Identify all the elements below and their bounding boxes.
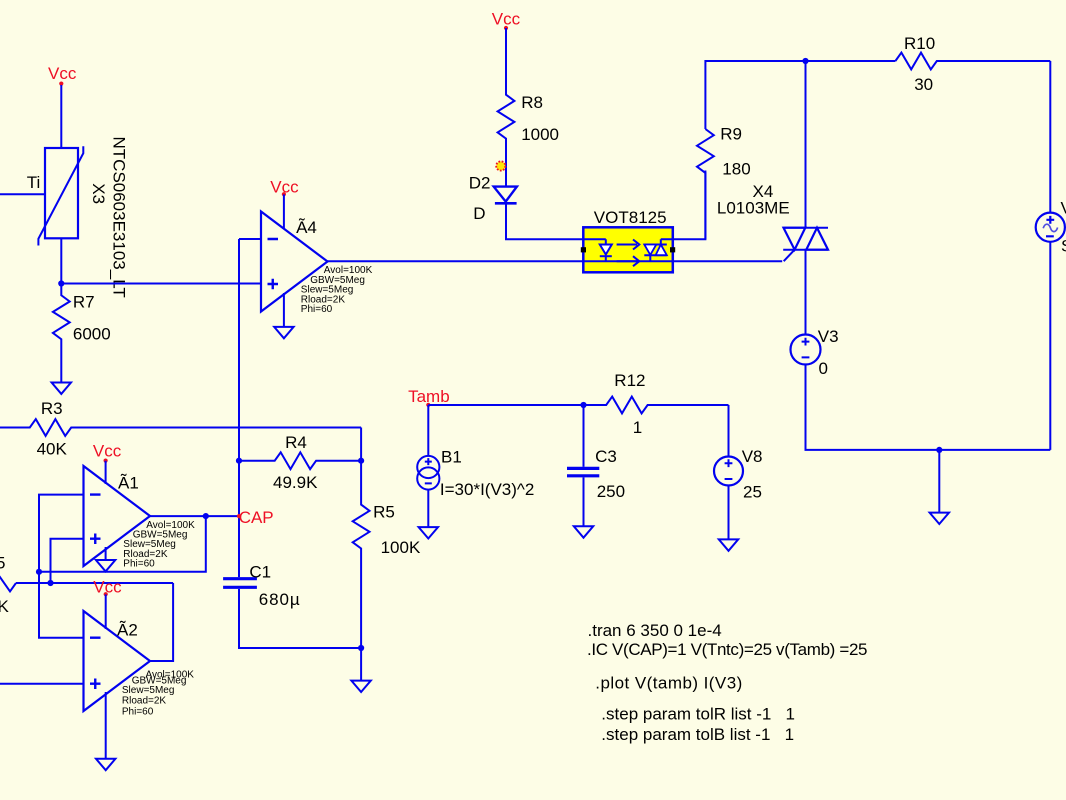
svg-text:Ti: Ti: [27, 173, 41, 192]
wire: [805, 61, 807, 227]
svg-text:B1: B1: [441, 447, 462, 466]
capacitor C3: [567, 405, 625, 501]
diode D2: [469, 173, 517, 223]
wire: [61, 283, 261, 285]
resistor R5: [353, 461, 421, 648]
svg-text:.plot V(tamb) I(V3): .plot V(tamb) I(V3): [595, 674, 742, 693]
svg-text:.IC V(CAP)=1 V(Tntc)=25 v(Tamb: .IC V(CAP)=1 V(Tntc)=25 v(Tamb) =25: [587, 640, 867, 659]
ground: [52, 383, 71, 394]
node Tamb: [408, 387, 450, 407]
resistor R4: [239, 433, 361, 492]
svg-text:Ã2: Ã2: [117, 620, 138, 639]
resistor R7: [53, 284, 111, 383]
node junction: [358, 458, 364, 464]
svg-text:180: 180: [722, 160, 750, 179]
svg-text:V3: V3: [818, 327, 839, 346]
op-amp A2: [84, 611, 151, 711]
svg-text:.step param tolB list -1 1: .step param tolB list -1 1: [601, 725, 794, 744]
wire: [805, 249, 807, 335]
node junction: [802, 58, 808, 64]
wire: [705, 61, 895, 129]
node junction: [236, 458, 242, 464]
resistor R3: [0, 399, 361, 458]
svg-text:Vcc: Vcc: [492, 10, 521, 29]
node junction: [936, 447, 942, 453]
ground: [274, 327, 293, 338]
wire: [661, 171, 706, 240]
voltage source V3: [791, 327, 839, 378]
voltage source V8: [714, 447, 762, 502]
svg-text:L0103ME: L0103ME: [717, 199, 790, 218]
svg-text:R12: R12: [614, 371, 645, 390]
svg-text:R4: R4: [285, 433, 307, 452]
svg-text:C1: C1: [249, 563, 271, 582]
wire: [583, 477, 585, 526]
opto triac: [644, 239, 667, 261]
svg-text:R8: R8: [521, 93, 543, 112]
node Vcc (R8): [492, 10, 521, 31]
ground: [574, 526, 593, 537]
svg-text:K: K: [0, 597, 10, 616]
spice directive .step: [601, 705, 795, 745]
svg-text:D2: D2: [469, 173, 491, 192]
optocoupler U1 VOT8125 package body: [583, 227, 673, 272]
wire A2 -input: [39, 572, 84, 638]
wire A2 +input: [0, 683, 84, 685]
wire vertical CAP net: [238, 239, 240, 577]
wire gate: [784, 250, 795, 262]
wire: [427, 490, 429, 527]
wire A1 +input: [51, 539, 84, 583]
svg-text:250: 250: [597, 482, 625, 501]
wire: [60, 238, 62, 283]
wire: [105, 692, 107, 759]
svg-text:Phi=60: Phi=60: [122, 706, 154, 717]
svg-text:Slew=5Meg: Slew=5Meg: [122, 685, 175, 696]
svg-text:D: D: [473, 204, 485, 223]
svg-text:Ã1: Ã1: [118, 474, 139, 493]
opto LED: [600, 239, 612, 261]
svg-text:C3: C3: [595, 447, 617, 466]
svg-text:.tran 6 350 0 1e-4: .tran 6 350 0 1e-4: [588, 621, 722, 640]
svg-text:25: 25: [743, 482, 762, 501]
svg-text:NTCS0603E3103_LT: NTCS0603E3103_LT: [110, 137, 129, 298]
wire: [60, 85, 62, 148]
wire A1 feedback: [39, 495, 206, 572]
wire: [806, 365, 1051, 450]
wire: [105, 461, 107, 484]
A2 parameters: [122, 670, 194, 718]
node junction: [47, 580, 53, 586]
op-amp A1: [84, 466, 151, 566]
svg-text:VOT8125: VOT8125: [594, 208, 667, 227]
svg-text:Ã4: Ã4: [296, 218, 317, 237]
svg-text:30: 30: [914, 75, 933, 94]
svg-text:6000: 6000: [73, 324, 111, 343]
node junction: [580, 402, 586, 408]
wire: [105, 547, 107, 560]
wire: [506, 203, 606, 239]
resistor R12: [584, 371, 729, 437]
svg-text:0: 0: [819, 359, 828, 378]
op-amp A4: [261, 212, 328, 312]
node Vcc (top-left label): [48, 64, 77, 86]
svg-text:.step param tolR list -1 1: .step param tolR list -1 1: [601, 705, 795, 724]
triac X4: [717, 182, 828, 250]
wire A2 feedback: [150, 583, 173, 661]
voltage source V6 (right edge, AC): [1036, 199, 1066, 256]
svg-text:X3: X3: [89, 183, 108, 204]
wire: [283, 293, 285, 327]
svg-text:V8: V8: [742, 447, 763, 466]
wire: [728, 405, 730, 457]
ground: [96, 759, 115, 770]
wire: [1049, 242, 1051, 450]
resistor R8: [498, 28, 559, 187]
svg-text:680µ: 680µ: [259, 590, 301, 609]
wire: [1049, 61, 1051, 213]
svg-text:V6: V6: [1061, 199, 1066, 218]
node junction: [36, 569, 42, 575]
resistor R10: [895, 34, 1050, 94]
wire: [427, 405, 429, 456]
svg-text:100K: 100K: [381, 538, 421, 557]
resistor R9: [697, 124, 751, 239]
opto arrows: [617, 240, 640, 267]
wire: [0, 193, 45, 195]
wire A1 output: [150, 515, 239, 517]
svg-text:I=30*I(V3)^2: I=30*I(V3)^2: [440, 480, 534, 499]
spice directive .tran/.IC: [587, 621, 867, 659]
wire: [428, 404, 583, 406]
node junction: [358, 645, 364, 651]
svg-text:R7: R7: [73, 293, 95, 312]
wire: [105, 594, 107, 629]
A1 parameters: [123, 520, 195, 570]
wire: [728, 486, 730, 540]
wire: [239, 589, 361, 648]
svg-text:40K: 40K: [37, 439, 68, 458]
node Vcc (A4): [270, 177, 299, 196]
svg-text:CAP: CAP: [239, 508, 274, 527]
svg-text:1000: 1000: [521, 125, 559, 144]
node junction: [203, 513, 209, 519]
wire: [283, 194, 285, 229]
node Vcc (A1): [93, 441, 122, 462]
node CAP label: [237, 508, 274, 527]
ground: [419, 527, 438, 538]
svg-text:R5: R5: [373, 503, 395, 522]
current source B1: [417, 447, 534, 499]
ground: [351, 681, 370, 692]
ground: [96, 560, 115, 571]
node junction: [58, 280, 64, 286]
ground: [930, 513, 949, 524]
svg-text:SINE: SINE: [1061, 237, 1066, 256]
wire: [16, 582, 173, 584]
thermistor X3 body: [38, 146, 83, 245]
svg-text:Rload=2K: Rload=2K: [122, 695, 167, 706]
svg-text:Phi=60: Phi=60: [301, 304, 333, 315]
svg-text:Phi=60: Phi=60: [123, 559, 155, 570]
svg-text:Vcc: Vcc: [48, 64, 77, 83]
wire A4 output: [328, 260, 783, 262]
svg-text:1: 1: [633, 418, 642, 437]
wire A4 -input: [239, 238, 261, 240]
svg-text:Vcc: Vcc: [93, 577, 122, 596]
wire: [360, 428, 362, 461]
svg-text:R3: R3: [41, 399, 63, 418]
A4 parameters: [301, 265, 373, 315]
svg-text:49.9K: 49.9K: [273, 473, 318, 492]
wire: [938, 450, 940, 513]
resistor (left edge, partial): [0, 554, 16, 616]
node Vcc (A2): [93, 577, 122, 596]
marker (yellow circle): [496, 161, 505, 170]
ground: [719, 539, 738, 550]
svg-text:Vcc: Vcc: [93, 441, 122, 460]
opto pin squares: [581, 247, 675, 252]
capacitor C1: [223, 563, 300, 609]
svg-text:5: 5: [0, 554, 5, 573]
svg-text:R10: R10: [904, 34, 935, 53]
svg-text:R9: R9: [720, 124, 742, 143]
wire: [360, 648, 362, 681]
